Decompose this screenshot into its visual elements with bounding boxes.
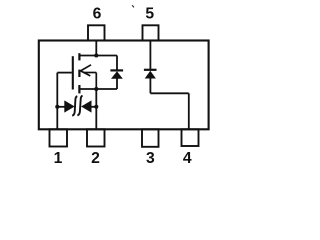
scan artifact mark — [132, 5, 134, 7]
transistor Q1 channel source stub — [78, 85, 80, 93]
diode D2 cathode bar — [144, 69, 157, 71]
svg-text:1: 1 — [54, 150, 63, 167]
wire source (bottom) — [79, 88, 117, 90]
wire TVS left — [57, 106, 64, 108]
diode D2 triangle — [145, 71, 156, 79]
node drain junction — [94, 53, 98, 57]
diode D1 triangle — [111, 71, 123, 79]
transistor Q1 channel body stub — [78, 70, 80, 77]
pin 3 — [142, 129, 159, 147]
wire diode D1 cathode lead — [116, 56, 118, 71]
transistor Q1 channel drain stub — [78, 53, 80, 60]
TVS Z1 right triangle — [81, 100, 91, 112]
svg-text:5: 5 — [145, 6, 154, 23]
transistor Q1 gate bar — [72, 56, 74, 89]
pin 4 — [182, 129, 199, 146]
wire down to pin 4 — [188, 93, 190, 129]
wire TVS right — [91, 106, 96, 108]
diode D1 cathode bar — [110, 69, 123, 71]
TVS Z1 left zener bar — [72, 96, 77, 116]
node source junction — [94, 87, 98, 91]
node gate-TVS junction — [55, 105, 59, 109]
wire gate column to pin 1 — [56, 73, 58, 130]
wire pin5 to diode D2 — [149, 42, 151, 70]
pin 1 — [50, 129, 68, 146]
package outline — [39, 41, 209, 130]
TVS Z1 left triangle — [64, 100, 74, 112]
TVS Z1 right zener bar — [77, 96, 82, 116]
svg-text:2: 2 — [91, 150, 100, 167]
wire drain (top) — [79, 55, 117, 57]
pin 6 — [88, 25, 105, 40]
wire gate lead — [57, 72, 72, 74]
wire diode D1 anode lead — [116, 78, 118, 89]
pin 2 — [87, 129, 105, 146]
pin 5 — [143, 25, 159, 40]
wire to pin 2 — [95, 107, 97, 130]
wire D2 to pin4 horizontal — [150, 92, 188, 94]
transistor Q1 body arrow — [81, 65, 97, 89]
wire source node down — [95, 89, 97, 107]
svg-text:3: 3 — [146, 150, 155, 167]
node source-TVS junction — [94, 105, 98, 109]
wire pin6 to drain node — [95, 42, 97, 56]
wire diode D2 anode lead — [149, 78, 151, 93]
svg-text:6: 6 — [93, 6, 102, 23]
svg-text:4: 4 — [183, 150, 192, 167]
